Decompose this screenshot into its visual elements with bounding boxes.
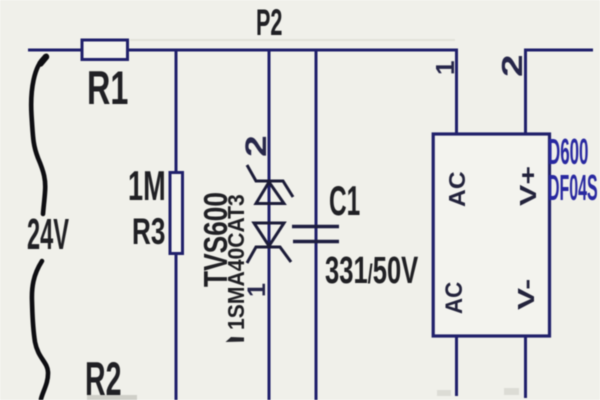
bridge pin 2 number rotated (499, 54, 528, 77)
wire TVS vertical through D1 (268, 50, 271, 400)
bridge reference label D600 (548, 134, 588, 170)
resistor R3 value label 1M (128, 165, 166, 207)
wire top-left segment from left end to R1 (28, 49, 82, 52)
transistor D1 TVS lower zener bar (247, 247, 291, 263)
ghost artifact above top wire (130, 39, 455, 41)
wire top-right from bridge pin 2 corner to right edge (526, 50, 594, 134)
resistor R1 reference label (87, 65, 128, 113)
wire main top bus from R1 to bridge pin 1 corner (128, 50, 457, 134)
smudge bottom left (87, 395, 137, 400)
stray mark below TVS label (226, 337, 245, 342)
resistor R3 reference label (132, 213, 165, 250)
transistor D1 pin 2 number rotated (242, 135, 272, 157)
resistor R3 (170, 173, 183, 254)
resistor R2 reference label (85, 356, 121, 400)
transistor D1 value label 1SMA40CAT3 rotated (225, 194, 249, 330)
capacitor C1 reference label (329, 180, 360, 222)
bridge value label DF04S (548, 170, 598, 206)
op-amp U1 bridge rectifier box (433, 134, 549, 336)
wire R3 lower to bottom edge (175, 254, 178, 400)
node 24V label (27, 213, 69, 257)
wire bridge pin 3 down (455, 336, 458, 396)
resistor R1 (82, 40, 128, 60)
transistor D1 TVS upper zener bar (247, 165, 293, 197)
node P2 label (256, 4, 282, 41)
bridge pin label AC bottom rotated (443, 282, 467, 314)
bridge pin 1 number rotated (432, 61, 458, 75)
transistor D1 TVS lower triangle (254, 223, 284, 246)
hand-drawn brace lower 24V (32, 261, 48, 399)
transistor D1 pin 1 number rotated (245, 283, 270, 297)
wire C1 vertical (315, 50, 318, 400)
bridge pin label V+ rotated (517, 166, 540, 206)
bridge pin label V- rotated (515, 279, 538, 310)
wire R3 tap upper (175, 50, 178, 172)
hand-drawn brace upper tip blob (41, 57, 47, 64)
smudge bottom right 1 (437, 390, 451, 396)
bridge pin label AC top rotated (446, 172, 470, 208)
capacitor C1 value label (325, 252, 418, 290)
capacitor C1 plates (292, 227, 339, 242)
wire bridge pin 4 down (524, 336, 527, 398)
transistor D1 TVS upper triangle (256, 182, 284, 204)
hand-drawn brace upper 24V (31, 57, 45, 214)
transistor D1 reference label TVS600 rotated (199, 192, 232, 287)
smudge bottom right 2 (504, 388, 519, 395)
